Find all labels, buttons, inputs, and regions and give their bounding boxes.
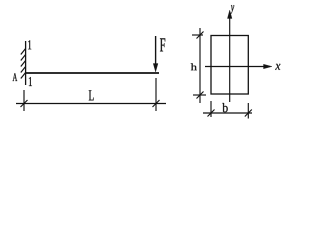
label L xyxy=(89,90,94,100)
tick slash left (L) xyxy=(21,100,28,107)
label x xyxy=(275,64,280,70)
hatch stroke 1 xyxy=(21,49,26,55)
cross-section rectangle xyxy=(211,36,248,95)
force F line xyxy=(155,36,157,65)
extension line right (b) xyxy=(247,103,249,119)
tick slash bottom (h) xyxy=(197,92,204,99)
extension line right (L) xyxy=(155,78,157,111)
dimension line b (horizontal) xyxy=(203,112,252,114)
beam AB xyxy=(26,72,159,74)
label h xyxy=(191,63,197,70)
extension line left (b) xyxy=(210,101,212,117)
dimension line h (vertical) xyxy=(199,28,201,103)
tick slash top (h) xyxy=(197,32,204,39)
hatch stroke 5 xyxy=(21,73,26,79)
dimension line L xyxy=(16,103,166,105)
y axis arrowhead xyxy=(227,10,232,19)
label A xyxy=(13,73,18,81)
hatch stroke 2 xyxy=(21,55,26,61)
tick slash right (b) xyxy=(245,110,252,117)
x axis arrowhead xyxy=(264,64,273,69)
extension tick bottom (h) xyxy=(193,94,206,96)
tick slash left (b) xyxy=(208,110,215,117)
wall / section line 1-1 xyxy=(25,41,27,85)
label b xyxy=(222,103,227,112)
force F arrowhead xyxy=(153,64,158,73)
y axis line xyxy=(229,17,231,102)
tick slash right (L) xyxy=(153,100,160,107)
label y xyxy=(230,5,234,14)
extension tick top (h) xyxy=(192,34,203,36)
label 1 (bottom) xyxy=(29,77,32,86)
extension line left (L) xyxy=(23,90,25,111)
label F xyxy=(160,38,165,51)
hatch stroke 3 xyxy=(21,61,26,67)
label 1 (top) xyxy=(28,40,31,49)
hatch stroke 4 xyxy=(21,67,26,73)
x axis line xyxy=(205,66,265,68)
